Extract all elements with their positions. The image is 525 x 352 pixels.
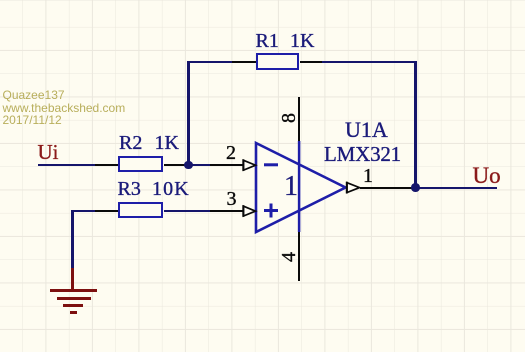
resistor R1 label <box>256 31 279 51</box>
resistor R1 <box>256 53 299 70</box>
resistor R2 value 1K <box>155 133 179 153</box>
resistor R2 right pin <box>164 164 188 166</box>
op-amp U1 power pin 4 <box>298 232 300 281</box>
wire R3 to pin 3 <box>164 210 211 213</box>
resistor R3 label <box>118 179 141 199</box>
op-amp gate number 1 <box>284 173 298 201</box>
op-amp designator U1A <box>345 119 388 141</box>
resistor R1 value 1K <box>290 31 314 51</box>
pin number 3 <box>227 189 237 209</box>
op-amp minus input symbol <box>264 163 278 166</box>
wire to ground vertical <box>71 210 74 268</box>
ground bar 4 <box>70 311 77 314</box>
pin number 4 rotated <box>279 252 299 262</box>
op-amp part LMX321 <box>324 144 401 165</box>
junction node A <box>184 161 193 170</box>
resistor R1 right pin <box>300 61 322 63</box>
junction node output <box>411 183 420 192</box>
wire Ui input <box>38 164 96 167</box>
wire feedback down to output <box>414 61 417 188</box>
ground bar 1 <box>50 289 97 292</box>
resistor R2 <box>118 156 163 172</box>
op-amp U1 pin 3 line <box>210 210 244 212</box>
wire output to Uo <box>415 187 497 190</box>
op-amp U1 pin 2 line <box>210 164 244 166</box>
ground bar 2 <box>57 297 91 300</box>
wire R3 left horizontal <box>71 210 96 213</box>
ground bar 3 <box>63 304 83 307</box>
resistor R2 left pin <box>95 164 119 166</box>
op-amp U1 pin 1 output line <box>360 187 415 189</box>
op-amp U1 power pin 8 <box>298 97 300 141</box>
pin 2 arrow <box>244 160 256 170</box>
pin 1 output arrow <box>347 183 360 193</box>
resistor R2 label <box>119 133 142 153</box>
wire feedback top left <box>187 61 232 64</box>
resistor R3 left pin <box>95 210 119 212</box>
resistor R3 <box>118 202 163 218</box>
node Ui label <box>38 142 59 163</box>
pin 3 arrow <box>244 206 256 216</box>
node Uo label <box>473 164 501 187</box>
op-amp U1 power rail inner <box>298 141 301 232</box>
op-amp U1 body <box>256 143 346 232</box>
wire junction to pin 2 <box>189 164 210 167</box>
op-amp plus input symbol <box>264 204 278 218</box>
ground stem <box>71 268 74 290</box>
pin number 1 <box>363 166 373 186</box>
wire feedback top right <box>322 61 416 64</box>
wire feedback up <box>187 62 190 166</box>
pin number 8 rotated <box>279 113 299 123</box>
pin number 2 <box>226 143 236 163</box>
watermark text <box>3 89 126 127</box>
resistor R3 value 10K <box>152 179 190 199</box>
resistor R1 left pin <box>232 61 256 63</box>
